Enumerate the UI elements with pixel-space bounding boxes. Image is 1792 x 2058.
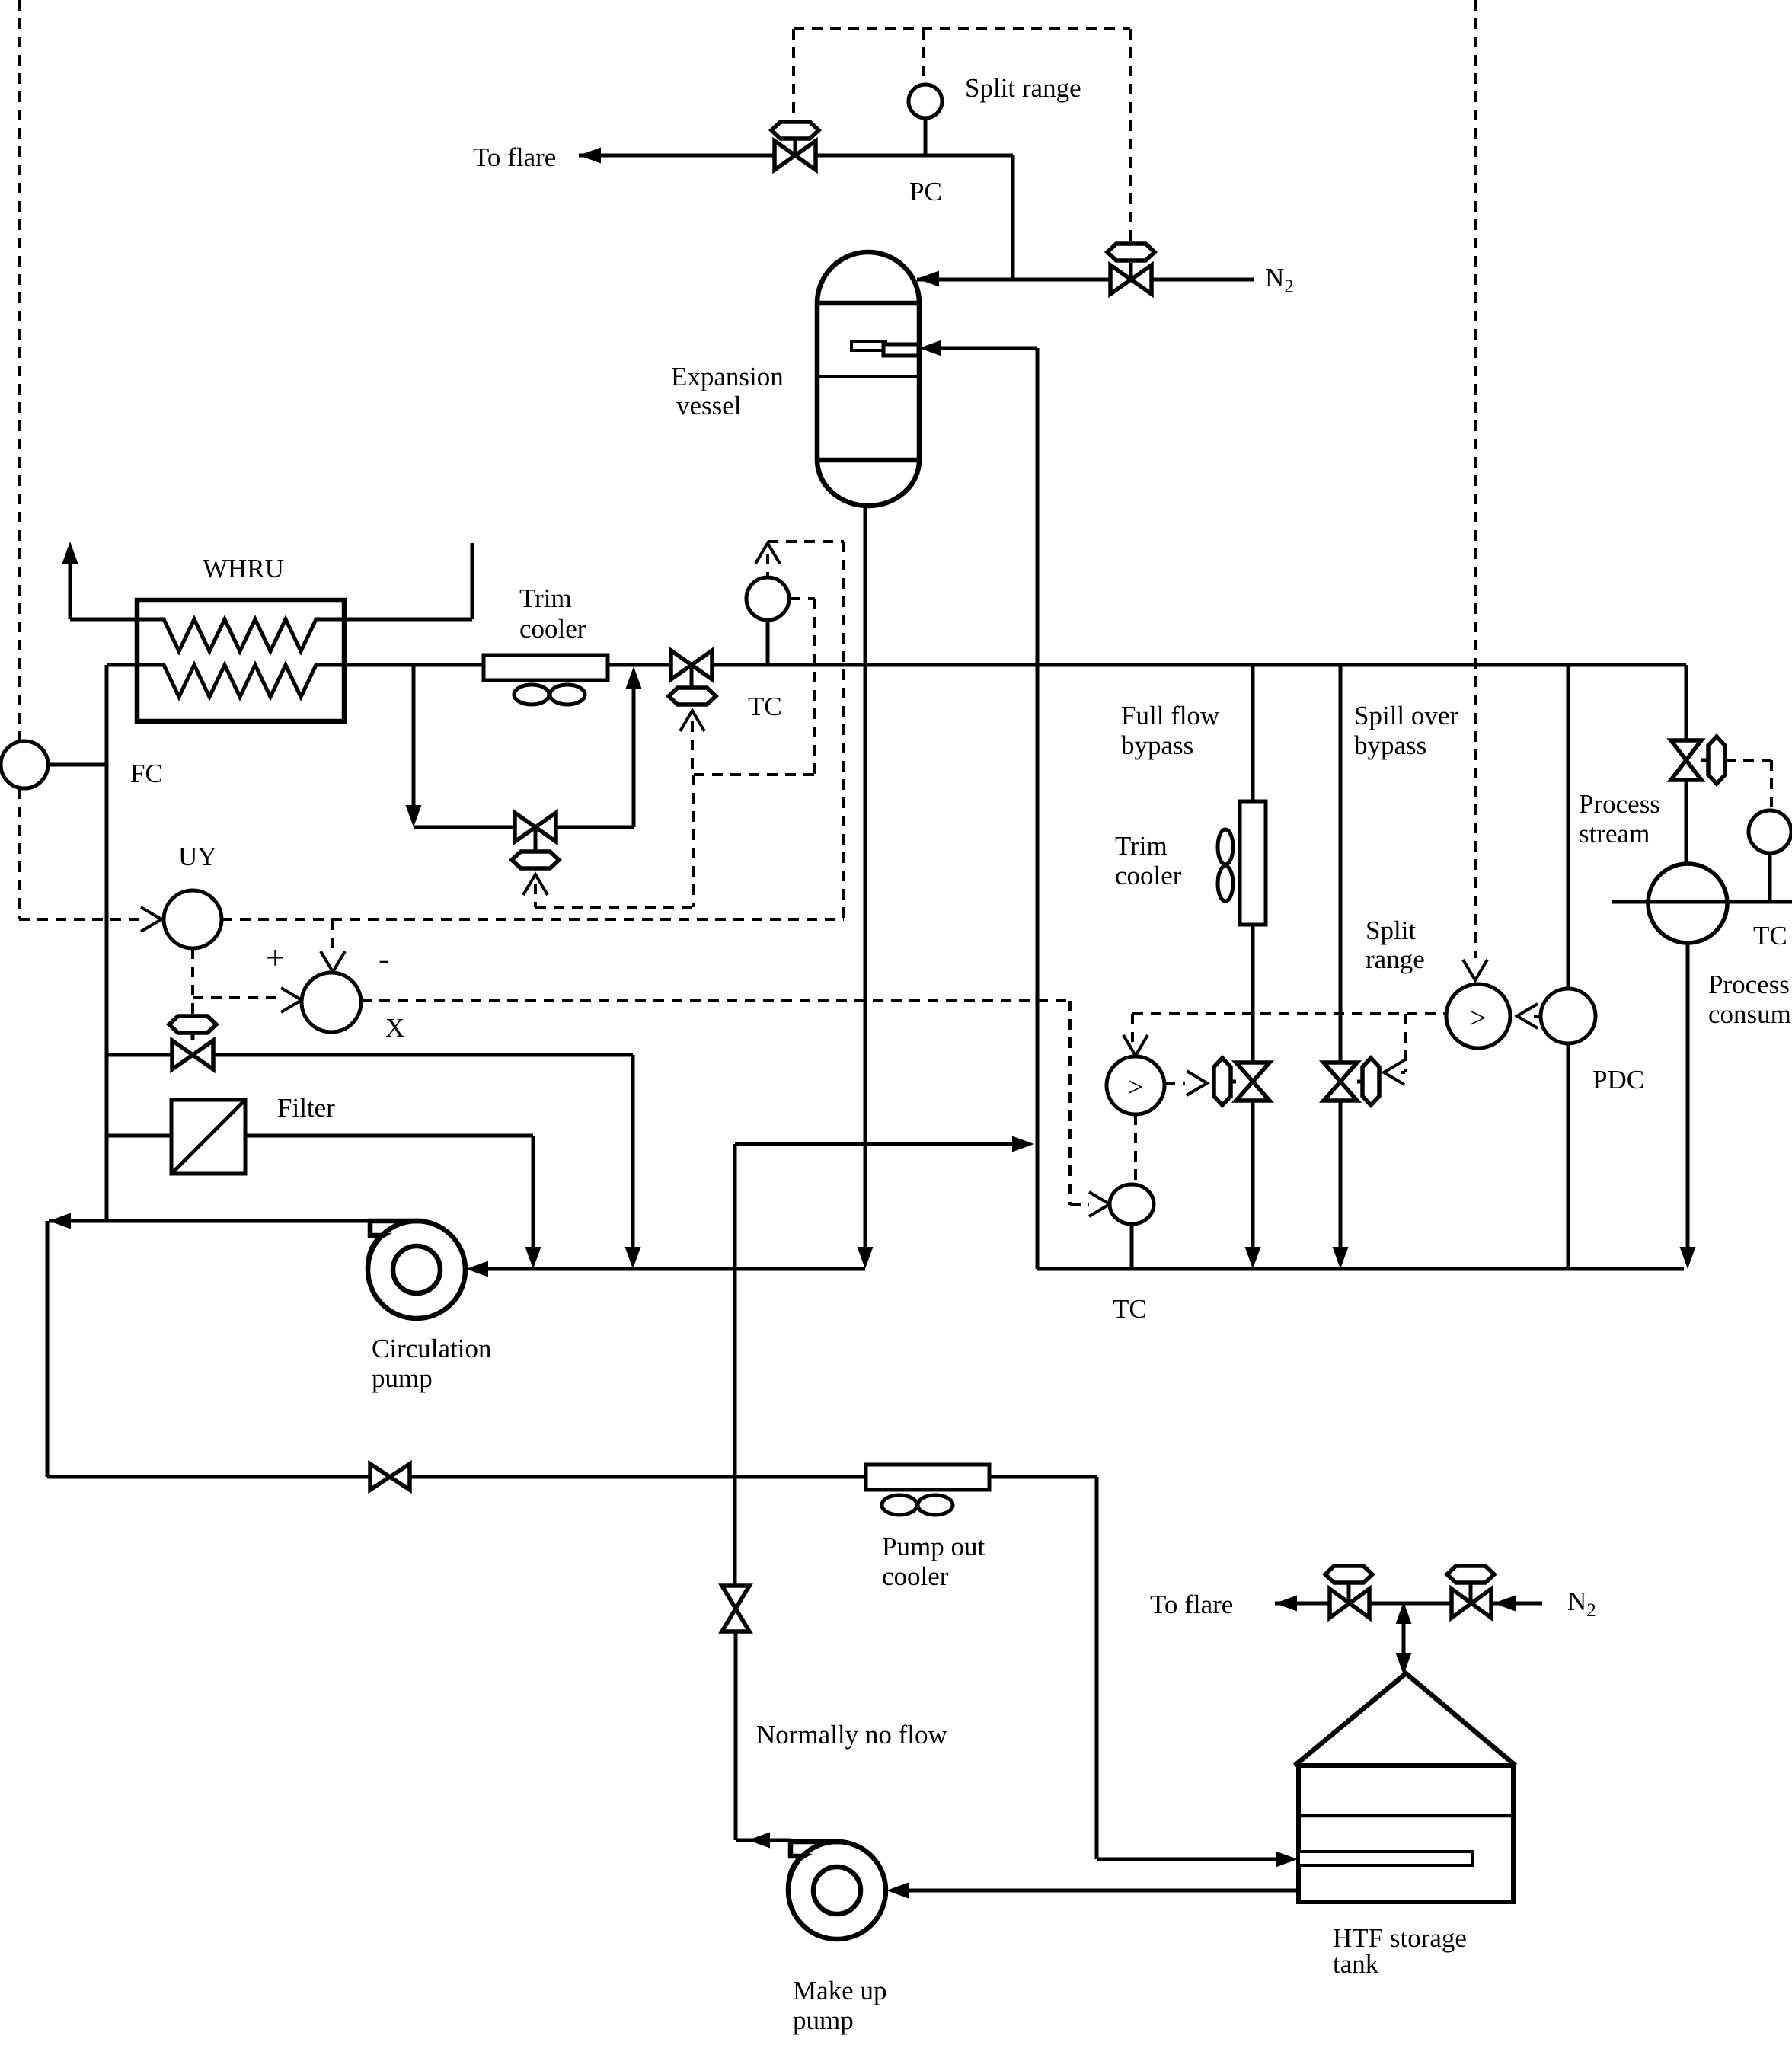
svg-text:stream: stream — [1579, 819, 1650, 848]
chevron PDC into max selector 1 — [1517, 1004, 1538, 1028]
svg-text:cooler: cooler — [519, 614, 586, 644]
svg-text:X: X — [385, 1013, 404, 1043]
wire pump-out to tank line — [989, 1475, 1097, 1479]
arrow into make-up pump — [886, 1883, 909, 1899]
arrow return into vessel — [919, 340, 941, 356]
wire WHRU flue gas inlet duct — [471, 543, 474, 619]
wire return header — [1037, 1267, 1684, 1271]
valve tank N2 valve body — [1452, 1589, 1491, 1618]
wire tank vent double arrow — [1402, 1622, 1406, 1654]
wire dashed X output — [361, 999, 1070, 1002]
arrow tank to flare — [1275, 1596, 1297, 1612]
arrow make-up into return downcomer — [1012, 1136, 1034, 1152]
wire dashed to flare valve actuator — [792, 29, 795, 120]
arrow full flow into return header — [1245, 1247, 1261, 1269]
actuator tank flare valve diaphragm — [1325, 1566, 1372, 1583]
valve N2 control valve body — [1110, 265, 1152, 294]
wire dashed to N2 valve actuator — [1129, 29, 1132, 241]
wire PC stub to flare line — [924, 118, 928, 154]
wire filter inlet — [107, 1134, 171, 1138]
wire tank N2 valve stem — [1469, 1583, 1473, 1603]
cooler trim cooler (bypass) fan 1 — [1218, 829, 1233, 864]
wire WHRU process lower coil — [107, 665, 484, 697]
wire left supply downcomer — [105, 665, 109, 1221]
wire UY valve line left — [107, 1053, 172, 1057]
wire tank N2 supply — [1493, 1602, 1542, 1606]
wire dashed X output to TC — [1070, 1203, 1089, 1206]
wire WHRU stack riser — [69, 557, 72, 619]
cooler pump out cooler fan 2 — [918, 1495, 953, 1515]
wire UY valve line right — [213, 1053, 633, 1057]
svg-text:cooler: cooler — [882, 1561, 949, 1591]
wire dashed PC to header — [922, 29, 925, 83]
cooler trim cooler body — [484, 655, 608, 680]
wire main line cooler to TC valve — [608, 663, 671, 667]
actuator UY valve diaphragm — [169, 1016, 216, 1033]
wire full flow valve stem — [1231, 1080, 1236, 1084]
wire make-up pump suction — [908, 1889, 1298, 1893]
wire make-up riser — [733, 1144, 737, 1586]
wire vessel outlet line — [864, 506, 867, 1248]
arrow tank N2 into valve — [1493, 1596, 1516, 1612]
wire flare valve stem — [794, 139, 797, 155]
wire trim bypass return riser — [632, 689, 636, 827]
wire dashed PDC to selector1 — [1534, 1015, 1541, 1018]
instrument max selector 2 circle — [1107, 1056, 1164, 1114]
arrow tank vent up — [1396, 1602, 1412, 1624]
svg-text:To flare: To flare — [1150, 1590, 1233, 1619]
wire vessel return inlet line — [941, 347, 1037, 350]
svg-text:FC: FC — [130, 759, 163, 788]
instrument UY computation circle — [164, 890, 222, 948]
svg-text:Split: Split — [1366, 916, 1416, 945]
svg-text:UY: UY — [178, 842, 217, 871]
exchanger WHRU box — [137, 600, 344, 721]
valve trim bypass valve body — [515, 813, 556, 842]
svg-text:Process: Process — [1579, 789, 1660, 819]
wire UY valve stem — [191, 1033, 195, 1040]
wire dashed split-range signal from top — [1474, 0, 1477, 958]
svg-text:-: - — [379, 941, 390, 978]
arrow vessel outlet into pump suction header — [858, 1247, 874, 1269]
svg-text:TC: TC — [748, 692, 782, 721]
svg-text:pump: pump — [793, 2005, 854, 2035]
chevron into max selector 2 — [1123, 1035, 1148, 1056]
wire process feed drop — [1685, 665, 1688, 740]
wire PDC lower line — [1567, 1043, 1570, 1269]
cooler pump out cooler fan 1 — [882, 1495, 917, 1515]
wire dashed UY to X summer — [193, 996, 282, 999]
chevron into X summer left — [281, 988, 302, 1012]
arrow N2 into expansion vessel — [917, 271, 939, 287]
wire TC stub to main line — [766, 620, 770, 665]
wire FC stub to supply line — [48, 763, 107, 767]
valve spill over bypass valve body — [1324, 1063, 1357, 1101]
svg-text:WHRU: WHRU — [203, 554, 284, 583]
wire N2 line to vessel — [917, 278, 1111, 282]
wire pump discharge line — [49, 1219, 370, 1223]
svg-text:>: > — [1470, 1002, 1486, 1034]
svg-text:PDC: PDC — [1592, 1065, 1644, 1095]
wire dashed TC signal split drop — [692, 775, 695, 907]
wire make-up pump discharge — [736, 1839, 791, 1842]
actuator full flow valve diaphragm (left) — [1214, 1058, 1231, 1105]
cooler trim cooler (bypass) body — [1240, 801, 1266, 925]
instrument TC controller circle (main) — [746, 577, 789, 620]
wire spill over bypass lower — [1339, 1101, 1343, 1248]
svg-text:bypass: bypass — [1354, 730, 1426, 760]
arrow filter line into suction header — [525, 1247, 541, 1269]
wire dashed selector1 to selector2 — [1132, 1012, 1446, 1015]
wire pump-out bottom line left — [47, 1475, 370, 1479]
arrow to flare (left) — [579, 148, 601, 164]
cooler pump out cooler body — [866, 1465, 989, 1490]
wire TC stub to process line — [1768, 853, 1772, 902]
arrow into circulation pump — [466, 1261, 488, 1277]
valve UY spill valve body — [172, 1040, 213, 1069]
wire dashed TC box top edge — [768, 540, 844, 543]
chevron into max selector 1 — [1463, 960, 1487, 980]
chevron into UY — [141, 907, 161, 932]
wire TC valve stem — [690, 665, 694, 688]
svg-text:vessel: vessel — [676, 391, 742, 420]
svg-text:TC: TC — [1753, 921, 1787, 951]
arrow tank vent down — [1396, 1653, 1412, 1675]
pump circulation pump — [368, 1221, 465, 1318]
wire dashed TC to valve signal — [790, 597, 815, 600]
wire full flow bypass lower — [1251, 1101, 1255, 1248]
actuator flare valve diaphragm — [771, 122, 819, 139]
wire dashed selector2 to TC — [1134, 1114, 1137, 1182]
wire dashed selector2 to full flow valve — [1164, 1082, 1185, 1085]
wire dashed branch to spill valve — [1404, 1014, 1407, 1072]
wire process consumer drop — [1686, 943, 1690, 1248]
vessel expansion vessel shell — [817, 252, 919, 506]
wire full flow bypass upper — [1251, 665, 1255, 801]
valve TC main control valve body — [671, 650, 712, 679]
valve full flow bypass valve body — [1236, 1063, 1270, 1101]
wire process stream line — [1612, 900, 1792, 904]
wire dashed flow setpoint from top — [18, 0, 21, 741]
instrument max selector 1 circle — [1446, 984, 1510, 1048]
instrument TC controller (pump-out) ellipse — [1110, 1184, 1154, 1224]
vessel bottom tangent line — [817, 458, 919, 463]
svg-text:consumer: consumer — [1708, 999, 1792, 1029]
svg-text:tank: tank — [1333, 1949, 1379, 1979]
wire dashed process valve signal — [1725, 759, 1771, 762]
wire dashed UY output down — [191, 948, 194, 1016]
svg-text:bypass: bypass — [1121, 730, 1193, 760]
wire process valve stem — [1701, 759, 1708, 762]
arrow process consumer into return header — [1680, 1247, 1696, 1269]
wire filter outlet drop — [532, 1136, 535, 1248]
wire flare riser from N2 line — [1011, 155, 1015, 280]
valve tank flare valve body — [1330, 1589, 1369, 1618]
wire dashed setpoint into X top — [331, 919, 334, 952]
cooler trim cooler (bypass) fan 2 — [1218, 866, 1233, 901]
wire spill over valve stem — [1357, 1080, 1362, 1084]
valve pump-out manual valve — [370, 1464, 410, 1490]
instrument process mixer circle — [1648, 864, 1727, 943]
svg-text:range: range — [1366, 944, 1425, 974]
wire make-up tie-in to return downcomer — [735, 1142, 1014, 1146]
wire dashed selector2 drop — [1131, 1014, 1134, 1042]
wire tank flare valve stem — [1347, 1583, 1351, 1603]
svg-text:Full flow: Full flow — [1121, 701, 1220, 730]
wire PDC upper line — [1567, 665, 1570, 989]
wire dashed UY output to TC box — [222, 918, 844, 921]
wire dashed TC box right edge (UY riser) — [842, 542, 845, 919]
wire N2 supply line — [1151, 278, 1254, 282]
arrow spill over into return header — [1333, 1247, 1349, 1269]
chevron TC signal into bypass valve actuator — [523, 874, 548, 895]
valve flare control valve body — [775, 141, 816, 170]
wire UY valve line drop — [631, 1055, 635, 1248]
svg-text:PC: PC — [909, 177, 942, 206]
valve make-up manual valve (vertical) — [722, 1586, 749, 1631]
wire dashed TC signal to bypass valve — [535, 906, 694, 909]
arrow UY line into suction header — [625, 1247, 641, 1269]
wire dashed TC output riser — [766, 554, 769, 577]
svg-text:pump: pump — [372, 1363, 433, 1393]
svg-text:cooler: cooler — [1115, 861, 1182, 890]
svg-text:Split range: Split range — [965, 73, 1081, 103]
wire full flow bypass middle — [1251, 925, 1255, 1063]
wire pump discharge corner — [46, 1221, 50, 1477]
instrument FC controller circle — [1, 741, 48, 788]
wire dashed TC signal valve riser — [691, 721, 694, 775]
wire N2 valve stem — [1129, 263, 1133, 280]
svg-text:>: > — [1128, 1072, 1143, 1102]
chevron into makeup TC — [1089, 1192, 1110, 1216]
svg-text:Normally no flow: Normally no flow — [756, 1720, 948, 1750]
actuator spill over valve diaphragm (right) — [1362, 1058, 1379, 1105]
wire process valve to mixer — [1685, 780, 1688, 864]
svg-text:Circulation: Circulation — [372, 1334, 491, 1363]
svg-text:To flare: To flare — [473, 142, 556, 172]
wire flare line left of valve — [579, 154, 775, 158]
instrument PDC controller circle — [1541, 989, 1596, 1043]
instrument TC controller (process) circle — [1749, 810, 1791, 853]
vessel liquid level line — [817, 375, 919, 378]
tank dip tube — [1298, 1852, 1473, 1865]
wire tank flare line — [1275, 1602, 1329, 1606]
wire filter outlet — [245, 1134, 533, 1138]
wire dashed X output drop — [1068, 1001, 1072, 1205]
chevron into X top — [321, 951, 345, 972]
wire tank vent header — [1369, 1602, 1452, 1606]
arrow trim bypass up into main — [626, 666, 642, 689]
pump make up pump — [788, 1842, 886, 1939]
actuator tank N2 valve diaphragm — [1447, 1566, 1494, 1583]
wire dashed FC output to UY — [19, 918, 142, 921]
filter box with diagonal — [171, 1100, 245, 1174]
wire consumer return downcomer — [1036, 348, 1040, 1269]
wire trim bypass lower line — [414, 826, 515, 829]
wire TC stub to return header — [1130, 1224, 1134, 1269]
chevron TC output up — [755, 543, 780, 564]
arrow WHRU stack outlet — [62, 542, 78, 564]
actuator TC valve diaphragm — [669, 688, 716, 705]
instrument PC controller circle — [909, 85, 942, 118]
arrow trim bypass down — [406, 805, 422, 827]
svg-text:+: + — [266, 939, 285, 976]
chevron into full flow valve actuator — [1187, 1071, 1207, 1095]
arrow make-up discharge left — [748, 1833, 770, 1849]
actuator N2 valve diaphragm — [1107, 244, 1155, 260]
svg-text:Spill over: Spill over — [1354, 701, 1458, 730]
vessel internal inlet pipe large — [883, 344, 918, 356]
wire WHRU hot gas upper coil — [70, 619, 344, 651]
arrow pump-out into tank — [1276, 1852, 1298, 1868]
wire trim bypass return line — [556, 826, 634, 829]
wire trim cooler bypass drop — [412, 665, 416, 807]
tank liquid level line — [1298, 1814, 1513, 1818]
vessel top tangent line — [817, 301, 919, 306]
cooler trim cooler fan 1 — [514, 685, 549, 705]
svg-text:Process: Process — [1708, 970, 1790, 999]
tank HTF roof — [1295, 1673, 1516, 1766]
svg-text:Filter: Filter — [277, 1093, 335, 1123]
vessel internal inlet pipe small — [851, 341, 886, 350]
actuator trim bypass valve diaphragm — [512, 852, 559, 868]
actuator process valve diaphragm (right) — [1708, 737, 1725, 784]
wire trim bypass valve stem — [534, 827, 538, 852]
svg-text:TC: TC — [1113, 1294, 1147, 1324]
svg-text:Trim: Trim — [519, 583, 572, 613]
wire flare line right of valve — [816, 154, 1013, 158]
wire pump suction header — [487, 1267, 865, 1271]
wire dashed PC split-range top header — [794, 27, 1130, 30]
svg-text:Pump out: Pump out — [882, 1532, 985, 1561]
wire spill over bypass upper — [1339, 665, 1343, 1063]
svg-text:Expansion: Expansion — [671, 362, 784, 391]
cooler trim cooler fan 2 — [550, 685, 585, 705]
chevron TC signal into valve actuator — [680, 711, 704, 731]
arrow pump discharge left — [49, 1213, 71, 1229]
wire make-up riser lower — [734, 1632, 738, 1840]
valve process stream valve body — [1671, 740, 1701, 780]
svg-text:Trim: Trim — [1115, 831, 1168, 861]
instrument X summing circle — [302, 973, 361, 1032]
wire pump-out bottom line right — [410, 1475, 866, 1479]
wire main supply header — [712, 663, 1686, 667]
svg-text:Make up: Make up — [793, 1976, 886, 2005]
tank HTF shell — [1298, 1766, 1513, 1902]
chevron into spill valve actuator — [1384, 1060, 1404, 1085]
wire dashed FC output down — [18, 788, 21, 919]
